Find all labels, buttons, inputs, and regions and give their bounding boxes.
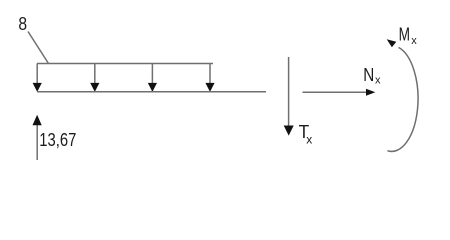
svg-text:M: M <box>399 24 410 44</box>
distributed load top line <box>37 63 213 65</box>
svg-text:x: x <box>375 75 381 87</box>
reaction arrow head <box>33 115 42 126</box>
normal force arrow head <box>366 89 375 96</box>
svg-text:8: 8 <box>18 14 27 34</box>
load arrow 3 head <box>148 83 157 92</box>
normal force arrow shaft <box>303 91 367 93</box>
load arrow 4 head <box>205 83 214 92</box>
beam line <box>37 91 266 93</box>
load arrow 2 head <box>90 83 99 92</box>
load arrow 1 shaft <box>36 64 38 85</box>
svg-text:x: x <box>411 35 417 47</box>
load arrow 1 head <box>33 83 42 92</box>
load arrow 4 shaft <box>209 64 211 85</box>
svg-text:13,67: 13,67 <box>39 130 76 150</box>
shear force arrow shaft <box>288 57 290 127</box>
svg-text:x: x <box>306 132 312 146</box>
leader line from label 8 to load line <box>28 32 49 64</box>
svg-text:N: N <box>363 65 374 85</box>
reaction arrow shaft <box>36 123 38 160</box>
moment arrow head <box>387 39 397 47</box>
moment arc <box>387 47 418 151</box>
shear force arrow head <box>284 126 294 136</box>
load arrow 2 shaft <box>94 64 96 85</box>
load arrow 3 shaft <box>151 64 153 85</box>
